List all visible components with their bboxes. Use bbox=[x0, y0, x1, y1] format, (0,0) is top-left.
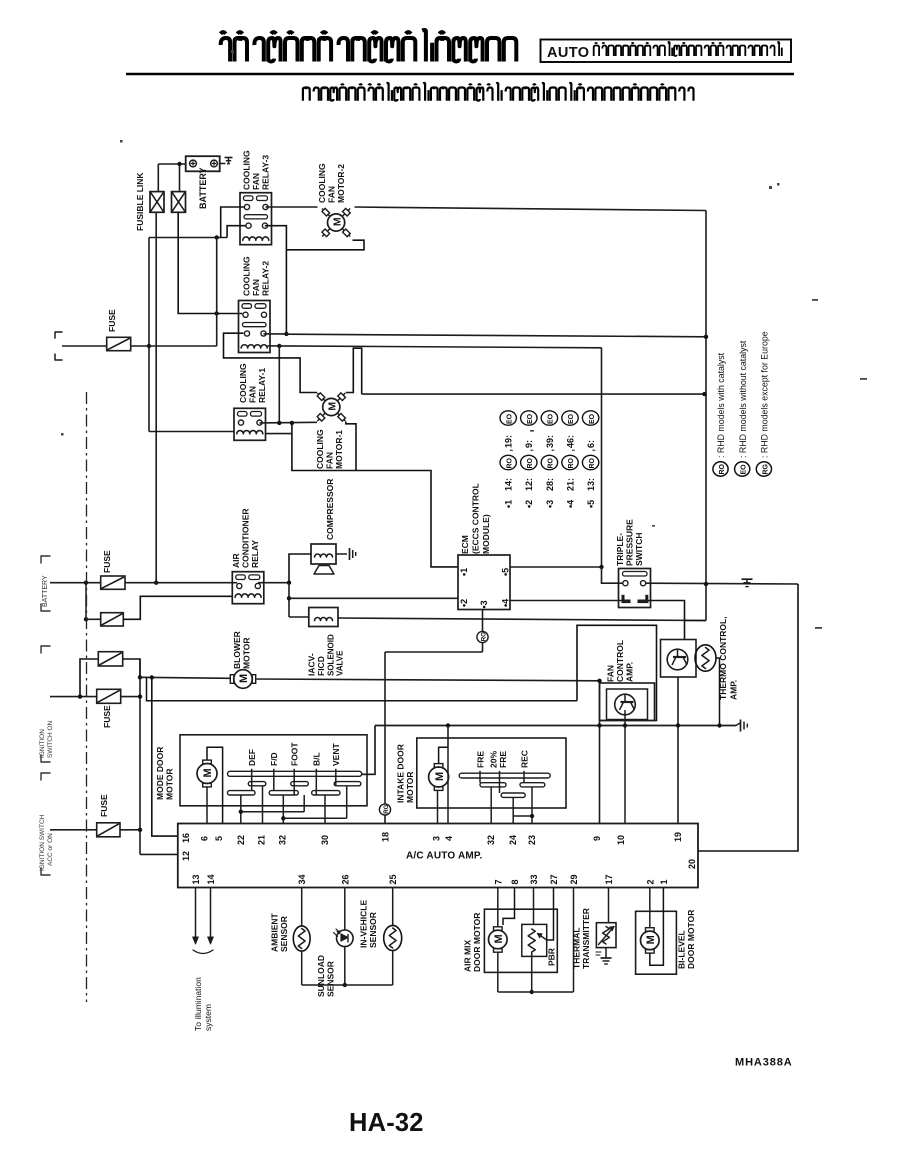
thermistor RT1 (thermo sensor) bbox=[695, 645, 716, 671]
svg-text:FUSE: FUSE bbox=[102, 550, 112, 573]
svg-text:10: 10 bbox=[616, 835, 626, 845]
photodiode sunload sensor bbox=[337, 930, 354, 947]
wire branch up to fuse F3 bbox=[80, 659, 98, 697]
svg-text:6: 6 bbox=[200, 836, 210, 841]
wire to fuse F2 bbox=[86, 618, 101, 620]
node bus/relay2 tap bbox=[215, 235, 219, 239]
svg-text:FUSE: FUSE bbox=[99, 794, 109, 817]
wire ignition feed bbox=[50, 696, 97, 698]
illumination brace bbox=[193, 950, 213, 954]
svg-text:•4: •4 bbox=[565, 500, 575, 508]
wire A/C relay contact to compressor node bbox=[258, 582, 289, 584]
svg-text:39:: 39: bbox=[545, 435, 555, 448]
svg-text:RO: RO bbox=[568, 457, 575, 468]
node relay-2 contact feed bbox=[215, 311, 219, 315]
source bracket (cooling fan fuse) bbox=[55, 332, 62, 360]
fuse F0 (cooling fan) bbox=[107, 337, 131, 350]
svg-text:•3: •3 bbox=[479, 600, 489, 608]
relay K1 cooling fan relay-1 bbox=[234, 408, 266, 440]
svg-text:FRE: FRE bbox=[498, 751, 508, 768]
transistor Q1 fan control amp bbox=[600, 683, 655, 721]
svg-text:To illumination: To illumination bbox=[193, 977, 203, 1031]
marker RO on pin3 wire bbox=[477, 631, 488, 642]
svg-text:THERMAL: THERMAL bbox=[572, 927, 582, 969]
svg-text:MOTOR-1: MOTOR-1 bbox=[334, 430, 344, 469]
svg-text:25: 25 bbox=[388, 874, 398, 884]
svg-text:MHA388A: MHA388A bbox=[735, 1057, 793, 1069]
wire node to IACV solenoid bbox=[289, 616, 309, 618]
svg-text:32: 32 bbox=[278, 835, 288, 845]
pressure switch PS1 bbox=[619, 569, 651, 608]
wire switch low contacts to thermo net bbox=[649, 601, 685, 640]
wire transmitter to ground bbox=[605, 948, 607, 958]
wire amp pin13 to illumination (arrow) bbox=[195, 888, 197, 939]
ground at thermal transmitter bbox=[601, 957, 612, 959]
svg-text:14: 14 bbox=[206, 874, 216, 884]
wire pin12 stub bbox=[140, 853, 178, 855]
svg-text:COOLING: COOLING bbox=[238, 363, 248, 403]
svg-text:•1: •1 bbox=[504, 500, 514, 508]
svg-text:system: system bbox=[203, 1004, 213, 1031]
node pin32 tie bbox=[281, 816, 285, 820]
wire long feed to fan control amp bbox=[147, 677, 578, 700]
thermal transmitter RT2 bbox=[596, 923, 616, 948]
svg-text:RELAY: RELAY bbox=[250, 540, 260, 568]
ground on pressure switch line bbox=[746, 579, 748, 584]
wire switch right to ground line bbox=[646, 582, 798, 585]
svg-text:AMP.: AMP. bbox=[729, 680, 739, 700]
svg-text:HA-32: HA-32 bbox=[349, 1109, 424, 1137]
wire battery to fusible links bbox=[158, 163, 185, 165]
node FL1 joins fuse line bbox=[154, 581, 158, 585]
mode switch common slot bar bbox=[228, 771, 362, 776]
wire fuse F2 to A/C relay coil bbox=[123, 596, 232, 619]
motor M7 bi-level door motor bbox=[641, 931, 660, 950]
fuse F5 bbox=[97, 823, 120, 837]
svg-text:: RHD models without catalyst: : RHD models without catalyst bbox=[738, 340, 748, 458]
svg-text:20%: 20% bbox=[489, 751, 499, 768]
wire relay-3 row2 left to bus bbox=[227, 226, 246, 238]
svg-text:•3: •3 bbox=[545, 500, 555, 508]
ground at battery bbox=[220, 163, 226, 165]
svg-text:•1: •1 bbox=[459, 568, 469, 576]
svg-text:27: 27 bbox=[549, 874, 559, 884]
svg-text:33: 33 bbox=[529, 874, 539, 884]
wire pin 26 to sunload sensor bbox=[344, 888, 346, 931]
fan control amp outline bbox=[577, 625, 657, 720]
svg-text:IACV-: IACV- bbox=[307, 653, 317, 676]
svg-text:EO: EO bbox=[568, 413, 575, 424]
svg-text:13:: 13: bbox=[586, 478, 596, 491]
marker RG on pin-18 wire bbox=[379, 804, 390, 815]
svg-text:F/D: F/D bbox=[269, 752, 279, 766]
wire pin3 link west bbox=[385, 651, 483, 653]
svg-text:COOLING: COOLING bbox=[242, 150, 252, 190]
svg-text:RELAY-1: RELAY-1 bbox=[257, 368, 267, 403]
battery BT1 bbox=[186, 156, 220, 171]
wire pin 34 to ambient sensor bbox=[301, 888, 303, 927]
wire FL1 down to A/C relay feed bbox=[155, 212, 157, 582]
wire drop to fusible link 2 bbox=[179, 164, 181, 192]
wire pin 7 to air mix motor bbox=[497, 888, 499, 927]
svg-text:RO: RO bbox=[527, 457, 534, 468]
svg-text:M: M bbox=[327, 402, 339, 411]
wire motor-2 to right trunk bbox=[355, 207, 707, 211]
svg-text:SENSOR: SENSOR bbox=[279, 916, 289, 952]
wire rail to mode-door common bbox=[362, 726, 375, 775]
wire fuse bus to relay-1 coil bbox=[149, 431, 234, 433]
node relay-1/coil-branch bbox=[277, 421, 281, 425]
svg-text:AIR: AIR bbox=[231, 553, 241, 568]
wire bracket to fuse bbox=[62, 345, 107, 347]
wire FL2 down to cooling fan relay-2 bbox=[178, 212, 242, 313]
svg-text:AIR MIX: AIR MIX bbox=[463, 940, 473, 972]
wire F4 out bbox=[121, 696, 140, 698]
svg-text:FAN: FAN bbox=[251, 279, 261, 296]
svg-text:RELAY-3: RELAY-3 bbox=[261, 155, 271, 190]
svg-text:RO: RO bbox=[480, 632, 487, 641]
node pin16 branch bbox=[150, 675, 154, 679]
svg-text:4: 4 bbox=[444, 836, 454, 841]
svg-text:PBR: PBR bbox=[547, 948, 557, 966]
thermistor ambient sensor bbox=[293, 926, 310, 951]
wire bi-level motor bottom to pin 1 bbox=[650, 888, 664, 966]
fusible link FL1 bbox=[150, 192, 164, 213]
svg-text:M: M bbox=[434, 772, 446, 781]
wire compressor to ground bbox=[336, 553, 347, 555]
svg-text:19:: 19: bbox=[504, 435, 514, 448]
transistor Q2 thermo control amp bbox=[661, 640, 697, 678]
svg-text:7: 7 bbox=[493, 879, 503, 884]
wire intake motor bottom to pin 3 bbox=[437, 791, 439, 824]
svg-text:ECM: ECM bbox=[460, 535, 470, 554]
fuse F3 bbox=[98, 652, 122, 666]
relay K3 cooling fan relay-3 bbox=[240, 193, 272, 245]
svg-text:AMP.: AMP. bbox=[625, 662, 635, 682]
svg-text:•2: •2 bbox=[459, 599, 469, 607]
wire PBR bottom bbox=[531, 952, 533, 992]
svg-text:6:: 6: bbox=[586, 440, 596, 448]
wire relay-1 contact right to motor-1 bbox=[260, 421, 318, 424]
wire rail to intake motor bbox=[447, 726, 449, 748]
svg-text:EO: EO bbox=[506, 413, 513, 424]
solenoid L1 IACV-FICD bbox=[309, 608, 338, 627]
wire solenoid to pressure switch ground net bbox=[338, 618, 706, 621]
wire battery source to fuse F1 bbox=[50, 582, 101, 584]
svg-text:19: 19 bbox=[673, 832, 683, 842]
svg-text:EO: EO bbox=[548, 413, 555, 424]
wire ACC feed to fuse F5 bbox=[50, 829, 97, 831]
intake wiper ticks bbox=[479, 771, 481, 783]
svg-text:EO: EO bbox=[527, 413, 534, 424]
node battery feed bbox=[177, 162, 181, 166]
wire mode common bar out bbox=[362, 773, 375, 775]
svg-text:3: 3 bbox=[432, 836, 442, 841]
battery bracket label bbox=[41, 556, 50, 611]
svg-text:SUNLOAD: SUNLOAD bbox=[316, 955, 326, 997]
svg-text:SWITCH ON: SWITCH ON bbox=[47, 721, 54, 758]
motor M3 blower motor bbox=[234, 670, 253, 689]
svg-text:RO: RO bbox=[548, 457, 555, 468]
wire F5 out bbox=[120, 829, 140, 831]
svg-text:MOTOR: MOTOR bbox=[165, 769, 175, 800]
source branch to fuse F2 bbox=[85, 583, 87, 620]
svg-text:46:: 46: bbox=[565, 435, 575, 448]
svg-text:RELAY-2: RELAY-2 bbox=[261, 261, 271, 296]
wire down to amp pin 18 bbox=[384, 652, 386, 824]
motor M4 mode door motor bbox=[197, 764, 217, 784]
fusible link FL2 bbox=[172, 192, 186, 213]
wire trunk bottom elbow bbox=[685, 620, 707, 622]
mode switch wiper ticks bbox=[251, 769, 253, 791]
A/C auto amplifier box U2 bbox=[178, 824, 698, 888]
mode switch level-2 pads bbox=[248, 782, 265, 786]
wire transistor emitter to amp pin 10 bbox=[624, 710, 626, 824]
svg-text:,: , bbox=[565, 449, 575, 452]
relay K2 cooling fan relay-2 bbox=[239, 301, 271, 353]
wire pin 27 to PBR wiper bbox=[547, 888, 554, 941]
svg-text:BATTERY: BATTERY bbox=[42, 575, 49, 607]
svg-text:PRESSURE: PRESSURE bbox=[625, 519, 635, 566]
svg-text:SOLENOID: SOLENOID bbox=[327, 634, 336, 676]
wire node to switch bbox=[601, 567, 603, 584]
svg-text:AUTO: AUTO bbox=[547, 45, 589, 61]
svg-text:•4: •4 bbox=[501, 599, 511, 607]
node ECM2 bbox=[287, 596, 291, 600]
svg-text:MODE DOOR: MODE DOOR bbox=[155, 747, 165, 800]
legend RO/EO/RG bbox=[713, 462, 728, 476]
svg-text:21:: 21: bbox=[565, 478, 575, 491]
wire mode pad to amp pin 30 bbox=[324, 795, 326, 824]
svg-text:M: M bbox=[238, 674, 250, 683]
wire motor-1 net east to trunk bbox=[362, 393, 705, 395]
wire bus down to cooling-fan fuse line bbox=[148, 238, 150, 432]
node pin5/pressure switch bbox=[599, 565, 603, 569]
wire to ECM pin 2 bbox=[289, 597, 458, 599]
air mix door motor box bbox=[484, 909, 557, 972]
wire relay-1 coil right bbox=[266, 433, 292, 435]
node coil-right bbox=[277, 344, 281, 348]
wire ECM pin5 east bbox=[510, 566, 602, 568]
svg-text:IGNITION: IGNITION bbox=[39, 729, 46, 758]
vertical feed to amp pin16 bbox=[152, 677, 178, 836]
wire motor-1 upper-right riser bbox=[346, 348, 362, 394]
ground at compressor bbox=[349, 548, 351, 560]
air mix return wire bbox=[498, 991, 574, 993]
svg-text:18: 18 bbox=[381, 832, 391, 842]
svg-text:CONDITIONER: CONDITIONER bbox=[241, 509, 251, 569]
node trunk-ground bbox=[704, 582, 708, 586]
scan specks bbox=[61, 50, 867, 629]
svg-text:MOTOR: MOTOR bbox=[405, 772, 415, 803]
svg-text:COOLING: COOLING bbox=[317, 163, 327, 203]
svg-text:INTAKE DOOR: INTAKE DOOR bbox=[396, 744, 406, 803]
svg-text:SENSOR: SENSOR bbox=[326, 961, 336, 997]
svg-text:FAN: FAN bbox=[251, 173, 261, 190]
svg-text:DOOR MOTOR: DOOR MOTOR bbox=[686, 910, 696, 969]
svg-text:DEF: DEF bbox=[247, 749, 257, 766]
svg-text:8: 8 bbox=[510, 879, 520, 884]
wire F3 out bbox=[123, 659, 140, 677]
svg-text:BATTERY: BATTERY bbox=[198, 168, 208, 210]
svg-text:MOTOR: MOTOR bbox=[242, 638, 252, 669]
svg-text:EO: EO bbox=[741, 464, 748, 475]
wire relay-3 row1 right to motor-2 bbox=[266, 206, 318, 208]
wire mode pads to amp pin 22 bbox=[240, 795, 242, 824]
svg-text:FUSE: FUSE bbox=[102, 705, 112, 728]
svg-text:,: , bbox=[504, 449, 514, 452]
page header: Thai title 'การวิเคราะห์ปัญหา' (drawn as glyph strokes) bbox=[221, 30, 517, 62]
wire intake pad to pin 32 bbox=[490, 787, 492, 824]
svg-text:SENSOR: SENSOR bbox=[368, 912, 378, 948]
rail junction nodes bbox=[446, 723, 450, 727]
fuse F4 bbox=[97, 689, 121, 703]
svg-text:23: 23 bbox=[527, 835, 537, 845]
svg-text:RO: RO bbox=[506, 457, 513, 468]
svg-text:,: , bbox=[586, 449, 596, 452]
svg-text:FICD: FICD bbox=[316, 656, 326, 676]
motor M5 intake door motor bbox=[429, 767, 449, 787]
svg-text:5: 5 bbox=[214, 836, 224, 841]
svg-text:TRIPLE-: TRIPLE- bbox=[615, 533, 625, 566]
svg-text:M: M bbox=[645, 935, 657, 944]
svg-text:: RHD models except for Europe: : RHD models except for Europe bbox=[760, 331, 770, 458]
svg-text:FAN: FAN bbox=[248, 386, 258, 403]
svg-text:VALVE: VALVE bbox=[336, 650, 345, 676]
wire horizontal bus y=237.5 bbox=[149, 237, 227, 239]
svg-text:VENT: VENT bbox=[331, 743, 341, 766]
motor M6 air mix door motor bbox=[489, 930, 508, 949]
svg-text:BLOWER: BLOWER bbox=[232, 631, 242, 669]
svg-text:FOOT: FOOT bbox=[290, 742, 300, 766]
svg-text:MODULE): MODULE) bbox=[481, 514, 491, 554]
svg-text:17: 17 bbox=[604, 874, 614, 884]
svg-text:TRANSMITTER: TRANSMITTER bbox=[581, 908, 591, 969]
svg-text:IGNITION SWITCH: IGNITION SWITCH bbox=[39, 814, 46, 871]
intake pads bbox=[480, 783, 506, 787]
mode switch level-3 pads bbox=[228, 791, 256, 795]
svg-text:A/C AUTO AMP.: A/C AUTO AMP. bbox=[406, 851, 483, 862]
svg-text:,: , bbox=[545, 449, 555, 452]
svg-text:34: 34 bbox=[297, 874, 307, 884]
svg-text:SWITCH: SWITCH bbox=[634, 532, 644, 566]
svg-text:,: , bbox=[524, 449, 534, 452]
node pin22 tie bbox=[239, 810, 243, 814]
wire intake motor top bracket / rail / pin4 bbox=[439, 747, 448, 763]
node compressor branch bbox=[287, 581, 291, 585]
motor M2 cooling fan motor-2 bbox=[328, 214, 345, 231]
wire coil-right branch down to relay-1 row bbox=[278, 346, 280, 423]
wire mode motor top bracket to pin 5 bbox=[207, 747, 223, 823]
wire to ECM pin 1 bbox=[292, 423, 458, 567]
svg-text:COOLING: COOLING bbox=[315, 429, 325, 469]
node ignition branch bbox=[78, 694, 82, 698]
svg-text:RG: RG bbox=[762, 463, 769, 474]
ground symbol at rail end bbox=[736, 723, 740, 726]
wire relay-2 row2 left loop to motor-1 upper-left bbox=[224, 333, 318, 392]
wire ECM pin4 to pressure switch low bbox=[510, 600, 622, 602]
wire blower to amp pin 9 node bbox=[256, 679, 599, 681]
svg-text:26: 26 bbox=[340, 874, 350, 884]
svg-text:DOOR MOTOR: DOOR MOTOR bbox=[472, 913, 482, 972]
vertical feed to amp pin 12 bbox=[139, 659, 141, 854]
wire ECM pin3 drop bbox=[482, 610, 484, 653]
svg-text:FUSE: FUSE bbox=[107, 309, 117, 332]
svg-text:•5: •5 bbox=[501, 568, 511, 576]
wire mode pad to amp pin 32 bbox=[282, 795, 284, 824]
bi-level door motor box bbox=[636, 911, 677, 974]
wire down to ECM pin 5 node bbox=[601, 348, 603, 567]
svg-text:28:: 28: bbox=[545, 478, 555, 491]
svg-text:: RHD models with catalyst: : RHD models with catalyst bbox=[716, 352, 726, 458]
wire relay-2 row2 right to trunk (long) bbox=[264, 333, 287, 335]
wire relay-2 coil right to pressure-switch net bbox=[268, 345, 280, 347]
wire pin 2 to bi-level motor bbox=[649, 888, 651, 928]
wire intake pad to pin 23 bbox=[531, 787, 533, 824]
wire relay-3 row1 left to bus bbox=[221, 207, 245, 238]
svg-text:RO: RO bbox=[719, 463, 726, 474]
svg-text:24: 24 bbox=[508, 835, 518, 845]
wire relay-2 tap vertical bbox=[216, 238, 218, 347]
svg-text:30: 30 bbox=[320, 835, 330, 845]
svg-text:RG: RG bbox=[383, 804, 390, 813]
wire intake pad to pin 24 bbox=[512, 797, 514, 823]
svg-text:M: M bbox=[493, 934, 505, 943]
svg-text:9:: 9: bbox=[524, 440, 534, 448]
fuse F2 bbox=[101, 613, 124, 626]
chain line (power supply routing) bbox=[86, 392, 88, 1002]
wire fuse F1 to A/C relay bbox=[125, 582, 237, 584]
wire node up to compressor bbox=[289, 554, 311, 583]
wire thermo amp to amp pin 19 bbox=[677, 677, 679, 824]
svg-text:2: 2 bbox=[645, 879, 655, 884]
svg-text:CONTROL: CONTROL bbox=[615, 640, 625, 682]
wire pin 17 to thermal transmitter bbox=[608, 888, 610, 923]
node sensor common bbox=[343, 983, 347, 987]
wire mode pad to amp pin 21 bbox=[262, 786, 264, 824]
wire node down to ECM pin2 line and solenoid bbox=[288, 583, 290, 617]
header AUTO box (AUTO + Thai) bbox=[541, 40, 792, 63]
svg-text:BI-LEVEL: BI-LEVEL bbox=[677, 930, 687, 969]
intake door motor box bbox=[417, 738, 566, 808]
potentiometer PBR bbox=[522, 924, 547, 956]
svg-text:16: 16 bbox=[181, 833, 191, 843]
svg-text:COMPRESSOR: COMPRESSOR bbox=[325, 479, 335, 540]
compressor body symbol bbox=[314, 566, 334, 575]
svg-text:•5: •5 bbox=[586, 500, 596, 508]
svg-text:RO: RO bbox=[589, 457, 596, 468]
svg-text:32: 32 bbox=[486, 835, 496, 845]
svg-text:MOTOR-2: MOTOR-2 bbox=[336, 164, 346, 203]
wire pin 33 to PBR bbox=[533, 888, 535, 925]
wire pin 25 to in-vehicle sensor bbox=[392, 888, 394, 926]
wire right trunk vertical x=706 bbox=[705, 211, 707, 621]
fuse F1 bbox=[101, 576, 125, 589]
wire relay-3 row2 right / motor-2 low bracket bbox=[265, 226, 287, 334]
wire pin 8 into box bbox=[503, 888, 515, 926]
svg-text:14:: 14: bbox=[504, 478, 514, 491]
svg-text:B/L: B/L bbox=[312, 752, 322, 766]
thermistor in-vehicle sensor bbox=[384, 925, 402, 950]
wire mode motor bottom to pin 6 bbox=[206, 787, 208, 823]
blower feed wire bbox=[140, 677, 230, 678]
wire motor-1 lower-right to ECM1 net bbox=[346, 422, 356, 471]
svg-text:M: M bbox=[331, 217, 343, 226]
svg-text:EO: EO bbox=[589, 413, 596, 424]
svg-text:M: M bbox=[202, 768, 214, 777]
compressor clutch coil bbox=[311, 544, 336, 564]
svg-text:FAN: FAN bbox=[606, 665, 616, 682]
